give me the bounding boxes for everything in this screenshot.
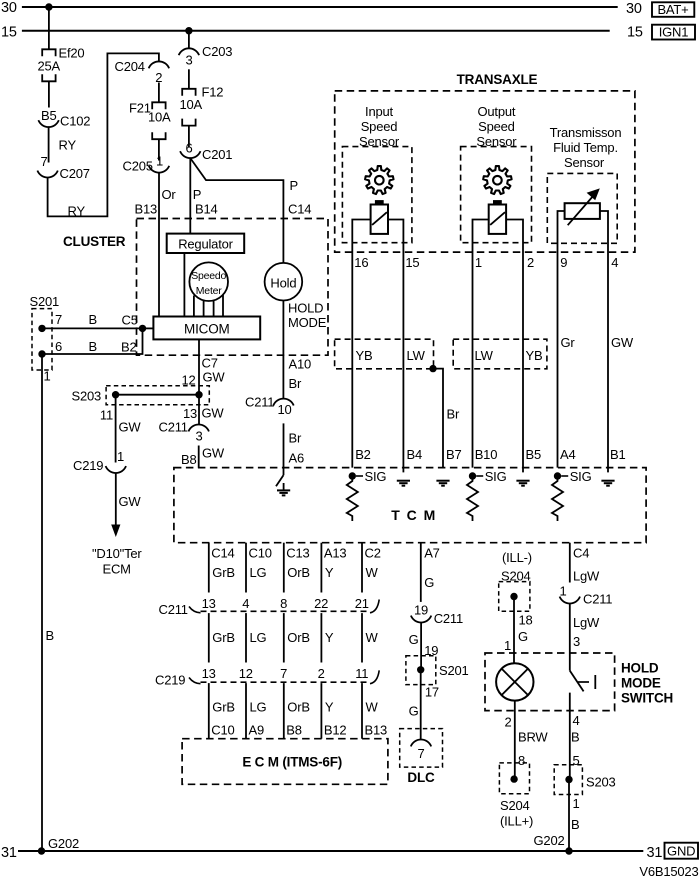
svg-text:Ef20: Ef20 <box>59 46 85 61</box>
svg-text:S204: S204 <box>500 798 530 813</box>
svg-text:C211: C211 <box>159 420 188 435</box>
temp sensor box <box>547 173 617 243</box>
svg-text:21: 21 <box>355 596 369 611</box>
svg-text:Y: Y <box>325 630 334 645</box>
gear icon <box>483 166 511 194</box>
svg-text:CLUSTER: CLUSTER <box>63 234 126 249</box>
svg-text:G: G <box>518 629 528 644</box>
svg-text:YB: YB <box>356 348 373 363</box>
splice S203 <box>554 765 582 795</box>
wire <box>222 295 224 317</box>
wire <box>158 139 160 160</box>
svg-text:B14: B14 <box>195 202 218 217</box>
resistor <box>467 478 478 521</box>
svg-text:OrB: OrB <box>287 700 310 715</box>
splice S204 <box>499 763 529 794</box>
node SIG <box>349 472 356 479</box>
svg-text:Speed: Speed <box>478 119 515 134</box>
node on bus 30 <box>45 3 52 10</box>
svg-text:30: 30 <box>1 0 17 16</box>
svg-text:OrB: OrB <box>287 565 310 580</box>
wire <box>388 220 403 473</box>
hold mode switch box <box>485 653 615 711</box>
TCM box <box>174 468 646 543</box>
node <box>38 350 45 357</box>
wire LG TCM C10 <box>245 543 247 593</box>
svg-text:GW: GW <box>203 370 226 385</box>
svg-text:C13: C13 <box>286 546 309 561</box>
switch to ground at A6 <box>283 468 285 476</box>
node <box>195 391 202 398</box>
ground <box>436 480 449 482</box>
svg-text:1: 1 <box>573 796 580 811</box>
svg-text:Br: Br <box>289 431 302 446</box>
svg-text:Hold: Hold <box>270 276 296 291</box>
svg-text:OrB: OrB <box>287 630 310 645</box>
svg-text:11: 11 <box>100 408 113 423</box>
svg-text:7: 7 <box>41 154 48 169</box>
svg-text:SIG: SIG <box>485 469 507 484</box>
ground <box>601 480 614 482</box>
wire <box>183 253 185 317</box>
svg-text:8: 8 <box>280 596 287 611</box>
switch contact <box>578 681 589 683</box>
svg-text:TRANSAXLE: TRANSAXLE <box>457 72 538 87</box>
svg-text:B10: B10 <box>475 447 498 462</box>
wire LgW C4 <box>569 543 571 583</box>
svg-text:LG: LG <box>250 565 267 580</box>
svg-text:B: B <box>46 628 54 643</box>
svg-text:Meter: Meter <box>196 285 223 297</box>
svg-text:C207: C207 <box>60 166 90 181</box>
bus 31 (GND) wire <box>18 850 643 852</box>
svg-text:13: 13 <box>202 596 216 611</box>
svg-text:19: 19 <box>414 603 428 618</box>
speedometer M1 <box>189 262 228 301</box>
wire OrB to ECM B8 <box>283 683 285 739</box>
svg-text:GW: GW <box>119 420 142 435</box>
fuse F12 10A <box>182 89 195 96</box>
svg-text:Fluid Temp.: Fluid Temp. <box>553 140 618 155</box>
svg-text:B13: B13 <box>135 202 158 217</box>
svg-text:RY: RY <box>68 204 86 219</box>
svg-text:1: 1 <box>156 154 163 169</box>
svg-text:LgW: LgW <box>573 569 600 584</box>
svg-text:C211: C211 <box>159 602 188 617</box>
svg-text:7: 7 <box>417 746 424 761</box>
wire <box>506 220 523 473</box>
svg-text:F12: F12 <box>202 85 224 100</box>
svg-text:7: 7 <box>280 666 287 681</box>
output speed sensor box <box>461 147 532 243</box>
svg-text:4: 4 <box>573 713 580 728</box>
svg-text:1: 1 <box>117 449 124 464</box>
svg-text:C4: C4 <box>573 546 589 561</box>
svg-text:C5: C5 <box>122 313 138 328</box>
wire B <box>569 693 571 780</box>
svg-text:B12: B12 <box>324 723 347 738</box>
svg-text:1: 1 <box>44 369 51 384</box>
svg-text:C102: C102 <box>60 114 90 129</box>
svg-text:G202: G202 <box>48 836 79 851</box>
svg-text:S203: S203 <box>586 775 616 790</box>
node <box>139 325 146 332</box>
svg-text:GrB: GrB <box>212 565 235 580</box>
splice S201 <box>406 656 436 685</box>
svg-text:11: 11 <box>355 666 368 681</box>
svg-text:Regulator: Regulator <box>178 236 233 251</box>
svg-text:6: 6 <box>55 339 62 354</box>
svg-text:18: 18 <box>519 613 533 628</box>
svg-text:A6: A6 <box>289 451 305 466</box>
svg-text:C211: C211 <box>583 592 612 607</box>
svg-text:B13: B13 <box>365 723 388 738</box>
svg-text:16: 16 <box>354 255 368 270</box>
illumination lamp L1 <box>496 663 533 700</box>
svg-text:GW: GW <box>611 335 634 350</box>
wire GW to ECM <box>115 473 117 525</box>
svg-text:10A: 10A <box>180 97 203 112</box>
svg-text:Output: Output <box>477 104 515 119</box>
svg-text:HOLD: HOLD <box>288 301 323 316</box>
wire GW pin13 <box>198 395 200 425</box>
node on bus 15 <box>185 27 192 34</box>
svg-text:B8: B8 <box>181 452 197 467</box>
wire GrB to ECM C10 <box>208 683 210 739</box>
svg-text:3: 3 <box>573 634 580 649</box>
svg-text:13: 13 <box>202 666 216 681</box>
node <box>112 391 119 398</box>
svg-text:C211: C211 <box>434 611 463 626</box>
svg-text:4: 4 <box>611 255 618 270</box>
svg-text:6: 6 <box>186 141 193 156</box>
svg-text:P: P <box>193 187 201 202</box>
svg-text:3: 3 <box>186 53 193 68</box>
wire <box>116 394 199 396</box>
svg-text:W: W <box>366 565 379 580</box>
svg-text:C204: C204 <box>115 59 145 74</box>
svg-text:BAT+: BAT+ <box>657 2 688 17</box>
node SIG <box>469 472 476 479</box>
svg-text:MICOM: MICOM <box>184 322 230 337</box>
wire P to cluster pin C14 <box>190 158 283 263</box>
ground <box>283 483 285 490</box>
svg-text:GND: GND <box>667 844 695 859</box>
wire GW C7 to S203 <box>198 339 200 394</box>
svg-text:1: 1 <box>475 255 482 270</box>
svg-text:BRW: BRW <box>518 730 548 745</box>
svg-text:5: 5 <box>573 753 580 768</box>
svg-text:G: G <box>424 575 434 590</box>
wire <box>48 7 50 49</box>
svg-text:30: 30 <box>626 1 642 17</box>
resistor <box>347 478 358 521</box>
svg-text:(ILL-): (ILL-) <box>502 550 532 565</box>
svg-text:22: 22 <box>314 596 328 611</box>
wire B pin6 to B2 <box>42 328 143 354</box>
wire W <box>361 613 363 662</box>
ground <box>397 480 410 482</box>
svg-text:IGN1: IGN1 <box>659 25 689 40</box>
svg-text:A10: A10 <box>289 357 312 372</box>
wire RY <box>48 127 50 162</box>
wire Br to TCM A6 <box>283 423 285 467</box>
svg-text:2: 2 <box>318 666 325 681</box>
DLC box <box>400 729 443 768</box>
svg-text:LW: LW <box>407 348 426 363</box>
output speed sensor G2 <box>493 200 502 205</box>
switch SW1 blade <box>570 671 584 692</box>
svg-text:B5: B5 <box>526 447 542 462</box>
svg-text:31: 31 <box>647 845 663 861</box>
svg-text:Y: Y <box>325 565 334 580</box>
bus 30 (BAT+) wire <box>22 6 618 8</box>
svg-text:V6B15023: V6B15023 <box>639 864 698 878</box>
svg-text:Br: Br <box>289 376 302 391</box>
svg-text:C219: C219 <box>155 673 185 688</box>
hold indicator circle <box>265 263 303 301</box>
wire A10 Br <box>282 301 284 399</box>
wire <box>158 83 160 103</box>
wire Y to ECM B12 <box>320 683 322 739</box>
wire G <box>420 670 422 740</box>
wire BRW <box>514 701 516 780</box>
svg-text:W: W <box>366 630 379 645</box>
input speed sensor box <box>342 147 412 243</box>
svg-text:G: G <box>409 632 419 647</box>
svg-text:LG: LG <box>250 700 267 715</box>
ground <box>516 480 529 482</box>
wire GW to TCM B8 <box>198 446 200 468</box>
svg-text:15: 15 <box>1 25 17 41</box>
wire <box>352 220 370 468</box>
svg-text:7: 7 <box>55 312 62 327</box>
wire GW pin11 <box>115 395 117 463</box>
wire GrB <box>208 613 210 662</box>
svg-text:GW: GW <box>202 446 225 461</box>
svg-text:ECM: ECM <box>103 562 131 577</box>
svg-text:17: 17 <box>425 685 439 700</box>
wire W to ECM B13 <box>361 683 363 739</box>
svg-text:B: B <box>89 339 97 354</box>
svg-text:8: 8 <box>518 753 525 768</box>
svg-text:1: 1 <box>559 584 566 599</box>
wire B pin7 to C5 <box>42 327 143 329</box>
wire label box LW YB <box>453 339 547 369</box>
svg-text:Speedo: Speedo <box>191 270 226 282</box>
svg-text:B7: B7 <box>446 447 462 462</box>
svg-text:9: 9 <box>560 255 567 270</box>
svg-text:C7: C7 <box>202 356 218 371</box>
svg-text:C14: C14 <box>211 546 234 561</box>
cluster box <box>137 219 329 356</box>
svg-text:B2: B2 <box>355 447 371 462</box>
gear icon <box>365 166 393 194</box>
connector C203 pin 3 <box>179 48 199 55</box>
svg-text:C10: C10 <box>249 546 272 561</box>
wire Or to cluster pin B13 <box>158 173 160 317</box>
svg-text:C203: C203 <box>202 44 232 59</box>
svg-text:S201: S201 <box>30 294 60 309</box>
svg-text:2: 2 <box>527 255 534 270</box>
svg-text:B1: B1 <box>610 447 626 462</box>
wire <box>193 296 195 317</box>
thermistor RT1 <box>565 203 600 219</box>
svg-text:C201: C201 <box>202 147 232 162</box>
svg-text:T C M: T C M <box>391 507 437 523</box>
svg-text:Br: Br <box>447 407 460 422</box>
svg-text:B5: B5 <box>41 108 57 123</box>
svg-text:S201: S201 <box>439 663 469 678</box>
wire GrB TCM C14 <box>208 543 210 593</box>
svg-text:SIG: SIG <box>365 469 387 484</box>
svg-text:GrB: GrB <box>212 700 235 715</box>
svg-text:A4: A4 <box>560 447 576 462</box>
svg-text:SWITCH: SWITCH <box>621 691 673 706</box>
arrow to D10 ECM <box>111 525 120 538</box>
input speed sensor G1 <box>375 200 384 205</box>
svg-text:Y: Y <box>325 700 334 715</box>
wire B to G202 <box>568 780 570 852</box>
svg-text:C14: C14 <box>288 202 311 217</box>
wire <box>188 126 190 148</box>
wire P to cluster pin B14 <box>189 158 191 234</box>
terminal box BAT+ <box>652 2 694 16</box>
svg-text:B: B <box>571 817 579 832</box>
wire G <box>513 597 515 664</box>
wire <box>188 31 190 49</box>
svg-text:15: 15 <box>627 25 643 41</box>
svg-text:31: 31 <box>1 845 17 861</box>
svg-text:E C M (ITMS-6F): E C M (ITMS-6F) <box>242 755 342 770</box>
wire LgW <box>569 604 571 671</box>
svg-text:W: W <box>366 700 379 715</box>
svg-text:G: G <box>409 704 419 719</box>
svg-text:C10: C10 <box>211 723 234 738</box>
svg-text:C205: C205 <box>123 159 153 174</box>
svg-text:C211: C211 <box>245 395 274 410</box>
fuse Ef20 25A <box>42 49 55 56</box>
svg-text:SIG: SIG <box>570 469 592 484</box>
connector DLC pin 7 <box>411 740 431 747</box>
node G202 <box>38 847 45 854</box>
bus 15 (IGN1) wire <box>22 30 610 32</box>
svg-text:GW: GW <box>202 406 225 421</box>
svg-text:GrB: GrB <box>212 630 235 645</box>
wire Y <box>320 613 322 662</box>
svg-text:C2: C2 <box>365 546 381 561</box>
svg-text:MODE: MODE <box>621 676 661 691</box>
wire <box>213 301 215 317</box>
svg-text:4: 4 <box>242 596 249 611</box>
svg-text:Or: Or <box>162 187 177 202</box>
wire Br <box>433 369 443 468</box>
svg-text:LG: LG <box>250 630 267 645</box>
svg-text:LgW: LgW <box>573 615 600 630</box>
svg-text:HOLD: HOLD <box>621 661 659 676</box>
svg-text:LW: LW <box>475 348 494 363</box>
svg-text:S203: S203 <box>72 389 102 404</box>
wire OrB <box>283 613 285 662</box>
resistor <box>552 478 563 521</box>
svg-text:B: B <box>571 730 579 745</box>
svg-text:Input: Input <box>365 104 394 119</box>
wire LG <box>245 613 247 662</box>
wire <box>600 211 608 472</box>
svg-text:DLC: DLC <box>407 770 435 785</box>
wire <box>203 301 205 317</box>
svg-text:(ILL+): (ILL+) <box>500 814 533 829</box>
svg-text:RY: RY <box>59 138 77 153</box>
svg-text:MODE: MODE <box>288 315 327 330</box>
svg-text:A9: A9 <box>249 723 265 738</box>
wire G <box>420 623 422 670</box>
svg-text:Sensor: Sensor <box>564 155 605 170</box>
regulator U box <box>167 234 245 253</box>
svg-text:10A: 10A <box>148 110 171 125</box>
wire W TCM C2 <box>361 543 363 593</box>
svg-text:G202: G202 <box>534 833 565 848</box>
svg-text:P: P <box>290 178 298 193</box>
svg-text:10: 10 <box>277 402 291 417</box>
wire OrB TCM C13 <box>283 543 285 593</box>
svg-text:YB: YB <box>526 348 543 363</box>
node Br tap <box>429 365 436 372</box>
svg-text:GW: GW <box>119 494 142 509</box>
wire label box YB LW <box>335 339 434 369</box>
node G202 <box>565 847 572 854</box>
svg-text:"D10"Ter: "D10"Ter <box>92 546 142 561</box>
node SIG <box>554 472 561 479</box>
wire to MICOM <box>143 327 154 329</box>
wire RY to C204 <box>48 53 159 216</box>
svg-text:Speed: Speed <box>361 119 398 134</box>
svg-text:A13: A13 <box>324 546 347 561</box>
svg-text:B4: B4 <box>407 447 423 462</box>
svg-text:15: 15 <box>405 255 419 270</box>
svg-text:C219: C219 <box>73 458 103 473</box>
svg-text:12: 12 <box>239 666 253 681</box>
svg-text:B2: B2 <box>121 340 137 355</box>
wire G A7 <box>420 543 422 602</box>
wire <box>48 81 50 107</box>
wire <box>473 220 489 468</box>
wire <box>558 211 565 468</box>
terminal box IGN1 <box>652 25 695 40</box>
svg-text:Gr: Gr <box>561 335 576 350</box>
terminal box GND <box>665 843 699 859</box>
svg-text:Transmisson: Transmisson <box>550 125 622 140</box>
wire LG to ECM A9 <box>245 683 247 739</box>
svg-text:1: 1 <box>504 638 511 653</box>
wire B to G202 <box>41 354 43 851</box>
svg-text:A7: A7 <box>424 546 440 561</box>
node <box>38 325 45 332</box>
svg-text:3: 3 <box>196 429 203 444</box>
svg-text:B8: B8 <box>286 723 302 738</box>
svg-text:2: 2 <box>504 715 511 730</box>
wire Y TCM A13 <box>320 543 322 593</box>
micom U box <box>153 317 260 340</box>
svg-text:25A: 25A <box>38 59 61 74</box>
ECM box <box>182 739 388 785</box>
svg-text:B: B <box>89 312 97 327</box>
wire <box>188 69 190 89</box>
